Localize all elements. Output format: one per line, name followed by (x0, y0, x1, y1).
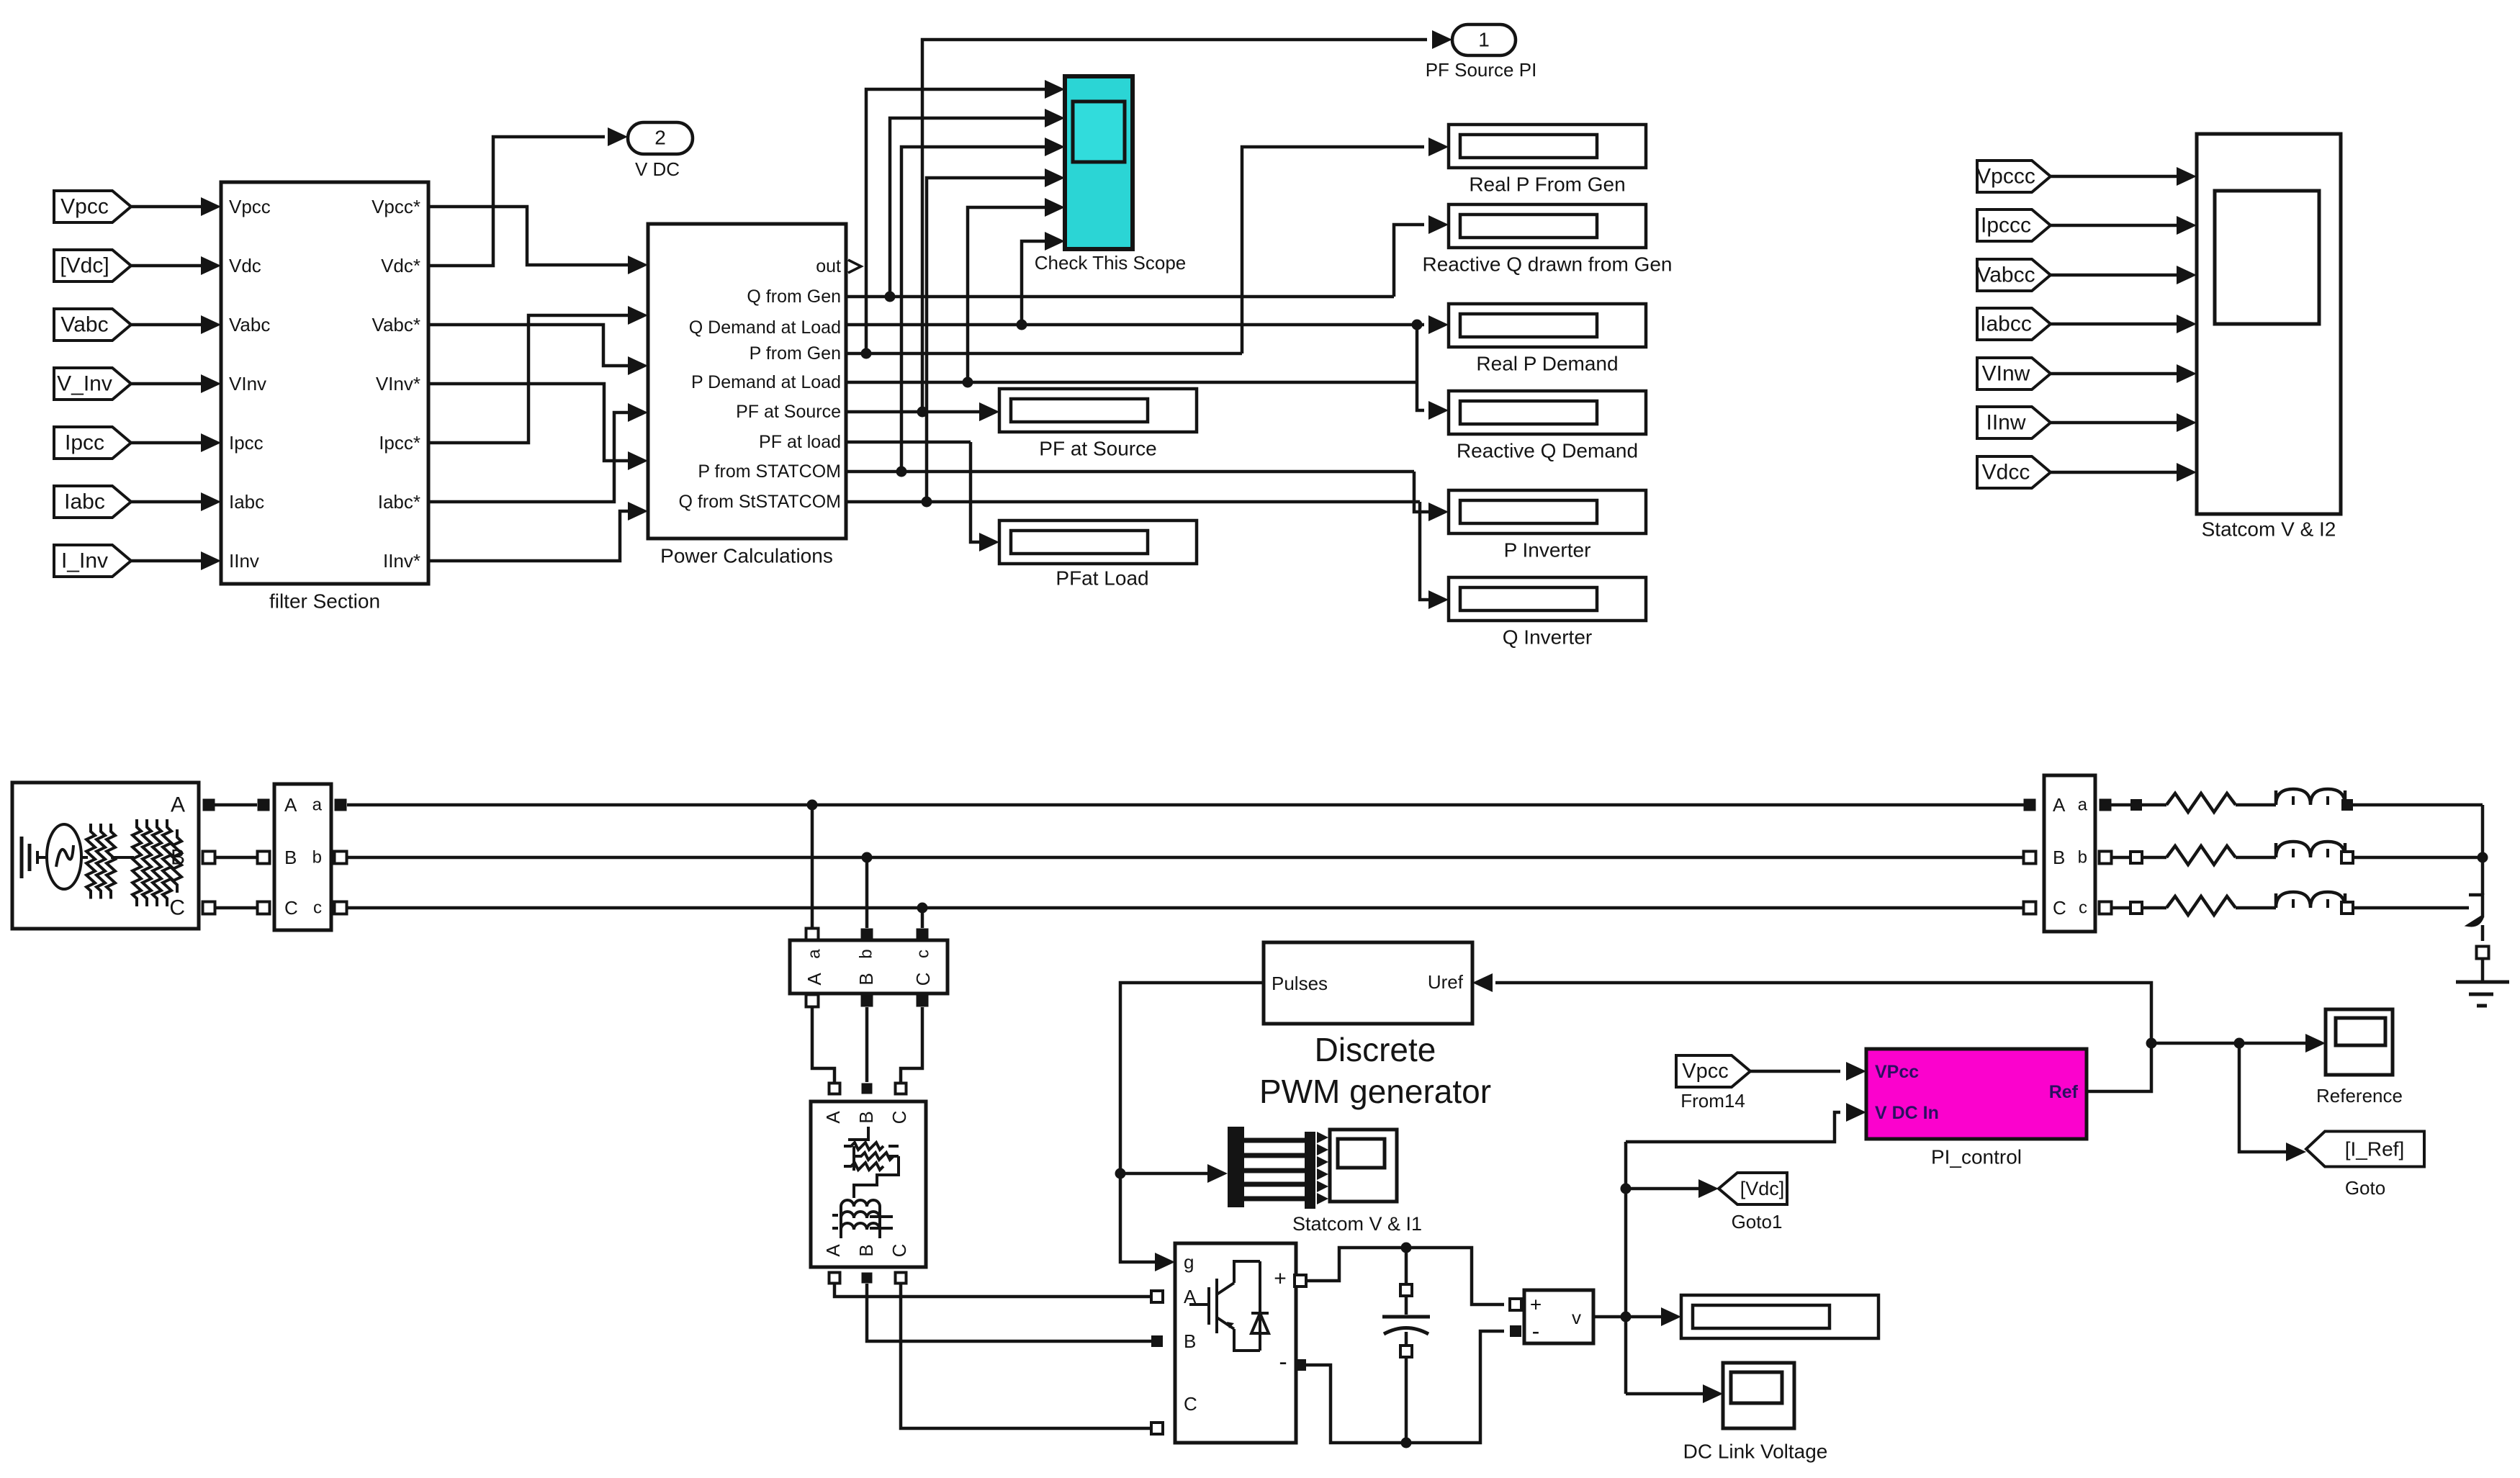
svg-text:Vabc: Vabc (60, 313, 108, 337)
svg-text:Reference: Reference (2316, 1085, 2403, 1107)
svg-text:+: + (1274, 1267, 1287, 1291)
svg-text:Check This Scope: Check This Scope (1035, 252, 1187, 274)
svg-text:P from Gen: P from Gen (750, 343, 841, 364)
svg-text:A: A (2053, 794, 2066, 816)
svg-text:-: - (1532, 1318, 1540, 1344)
svg-text:Vabc: Vabc (229, 314, 270, 335)
svg-text:Vpccc: Vpccc (1976, 165, 2035, 189)
svg-text:P Demand at Load: P Demand at Load (691, 372, 841, 392)
svg-text:PF at Source: PF at Source (1039, 438, 1156, 460)
svg-text:IInv: IInv (229, 550, 259, 572)
svg-text:B: B (855, 973, 877, 985)
svg-text:PWM generator: PWM generator (1259, 1073, 1491, 1110)
svg-text:Vpcc*: Vpcc* (372, 196, 420, 217)
svg-text:A: A (171, 793, 185, 817)
svg-text:C: C (888, 1111, 910, 1125)
svg-text:Vdc*: Vdc* (381, 255, 420, 276)
svg-text:Goto: Goto (2345, 1177, 2385, 1199)
svg-text:C: C (2053, 897, 2066, 919)
svg-text:Vdc: Vdc (229, 255, 261, 276)
svg-text:From14: From14 (1680, 1090, 1745, 1112)
svg-text:Q Inverter: Q Inverter (1503, 626, 1592, 649)
svg-text:b: b (312, 848, 322, 868)
svg-text:Goto1: Goto1 (1732, 1211, 1783, 1233)
svg-text:a: a (2078, 796, 2088, 815)
svg-text:Vabc*: Vabc* (372, 314, 420, 335)
svg-text:Iabc*: Iabc* (378, 491, 420, 513)
svg-text:Reactive Q Demand: Reactive Q Demand (1457, 440, 1638, 462)
svg-text:Real P From Gen: Real P From Gen (1469, 174, 1625, 196)
svg-text:Statcom V & I2: Statcom V & I2 (2202, 518, 2336, 541)
svg-text:VInv*: VInv* (376, 373, 420, 395)
svg-text:PF Source PI: PF Source PI (1426, 59, 1537, 81)
svg-text:Ipcc*: Ipcc* (379, 432, 420, 454)
svg-text:a: a (312, 796, 323, 815)
svg-text:A: A (822, 1244, 844, 1257)
svg-text:DC Link Voltage: DC Link Voltage (1683, 1441, 1828, 1463)
svg-text:Ipcc: Ipcc (229, 432, 264, 454)
svg-text:Vpcc: Vpcc (229, 196, 271, 217)
svg-text:[Vdc]: [Vdc] (1740, 1178, 1785, 1199)
svg-text:Vabcc: Vabcc (1976, 263, 2035, 287)
svg-text:1: 1 (1478, 29, 1490, 51)
svg-text:VInw: VInw (1982, 362, 2030, 386)
svg-text:Ipccc: Ipccc (1981, 214, 2031, 238)
svg-text:b: b (857, 949, 876, 958)
svg-text:V DC In: V DC In (1875, 1103, 1939, 1123)
svg-text:c: c (2079, 898, 2087, 918)
svg-text:c: c (914, 950, 933, 958)
svg-text:B: B (284, 847, 297, 868)
svg-text:Reactive Q drawn from Gen: Reactive Q drawn from Gen (1422, 253, 1672, 276)
svg-text:Ipcc: Ipcc (65, 431, 104, 455)
svg-text:B: B (855, 1111, 877, 1123)
svg-text:I_Inv: I_Inv (61, 549, 108, 573)
svg-text:+: + (1530, 1294, 1542, 1316)
svg-text:B: B (855, 1244, 877, 1256)
svg-text:A: A (804, 973, 825, 986)
svg-text:VPcc: VPcc (1875, 1062, 1919, 1082)
svg-text:Pulses: Pulses (1272, 973, 1328, 994)
svg-text:A: A (822, 1111, 844, 1124)
svg-text:2: 2 (654, 127, 666, 149)
svg-text:Power Calculations: Power Calculations (660, 545, 833, 567)
svg-text:C: C (169, 896, 185, 920)
svg-text:PFat Load: PFat Load (1056, 567, 1148, 590)
svg-text:VInv: VInv (229, 373, 266, 395)
svg-text:C: C (912, 973, 934, 986)
svg-text:IInv*: IInv* (383, 550, 420, 572)
svg-text:Vpcc: Vpcc (60, 195, 109, 219)
svg-text:filter Section: filter Section (269, 590, 380, 613)
svg-text:Ref: Ref (2049, 1082, 2079, 1102)
svg-text:Vpcc: Vpcc (1682, 1060, 1728, 1083)
svg-text:C: C (1184, 1393, 1197, 1415)
svg-text:Discrete: Discrete (1315, 1031, 1436, 1068)
svg-text:[Vdc]: [Vdc] (60, 254, 109, 278)
svg-text:A: A (284, 794, 297, 816)
svg-text:Iabc: Iabc (64, 490, 105, 514)
svg-text:PI_control: PI_control (1931, 1146, 2022, 1168)
svg-text:IInw: IInw (1986, 411, 2025, 435)
svg-text:Iabcc: Iabcc (1980, 312, 2032, 336)
svg-text:Real P Demand: Real P Demand (1476, 353, 1618, 375)
svg-text:B: B (2053, 847, 2065, 868)
svg-text:Q from Gen: Q from Gen (747, 287, 841, 307)
svg-text:out: out (816, 256, 841, 276)
svg-text:B: B (1184, 1330, 1196, 1352)
svg-text:a: a (805, 949, 824, 959)
svg-text:Statcom V & I1: Statcom V & I1 (1292, 1213, 1422, 1235)
svg-text:P Inverter: P Inverter (1504, 539, 1591, 562)
svg-text:Q from StSTATCOM: Q from StSTATCOM (679, 492, 841, 512)
svg-text:Iabc: Iabc (229, 491, 264, 513)
svg-text:Vdcc: Vdcc (1982, 461, 2030, 485)
svg-text:c: c (313, 898, 322, 918)
svg-text:P from STATCOM: P from STATCOM (698, 461, 841, 482)
svg-text:PF at load: PF at load (759, 432, 841, 452)
svg-text:b: b (2078, 848, 2087, 868)
svg-text:C: C (888, 1244, 910, 1258)
svg-text:PF at Source: PF at Source (736, 402, 841, 422)
svg-text:v: v (1572, 1307, 1581, 1328)
svg-text:C: C (284, 897, 298, 919)
svg-text:-: - (1279, 1348, 1287, 1376)
svg-text:[I_Ref]: [I_Ref] (2345, 1138, 2404, 1161)
svg-text:V_Inv: V_Inv (57, 372, 112, 396)
svg-text:V DC: V DC (635, 158, 680, 180)
svg-text:Q Demand at Load: Q Demand at Load (689, 317, 841, 338)
svg-text:Uref: Uref (1428, 971, 1464, 993)
svg-text:g: g (1184, 1251, 1194, 1273)
